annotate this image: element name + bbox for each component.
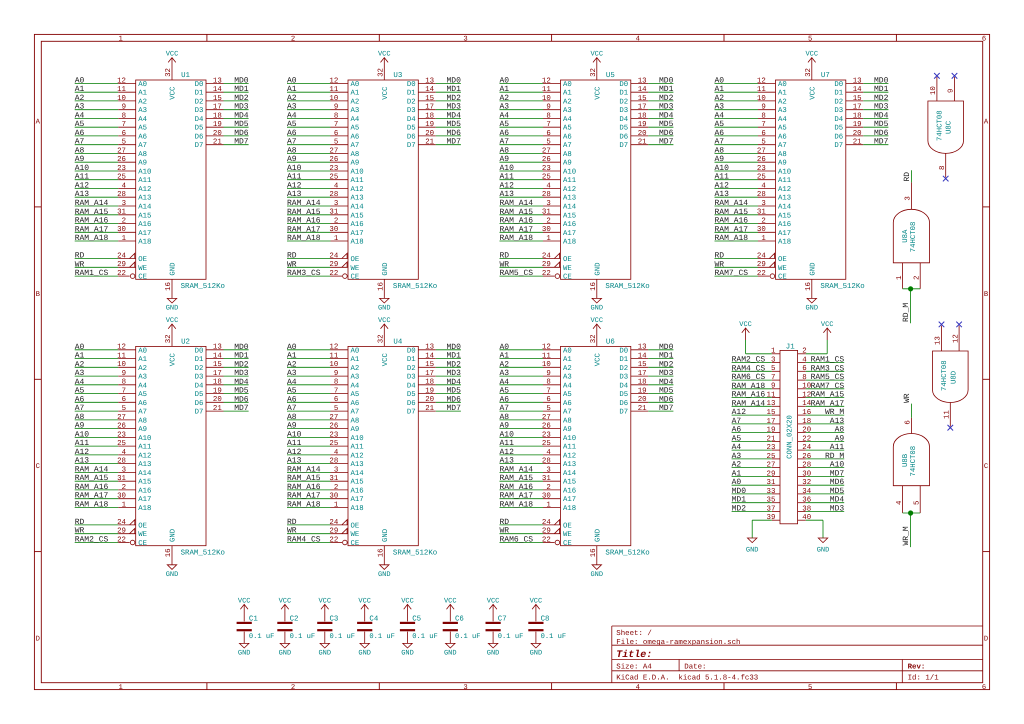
svg-text:8: 8 <box>802 374 806 382</box>
svg-text:D: D <box>984 636 988 644</box>
svg-text:A9: A9 <box>778 160 787 168</box>
svg-text:A0: A0 <box>138 347 147 355</box>
svg-text:A2: A2 <box>351 98 360 106</box>
svg-text:A5: A5 <box>351 391 360 399</box>
svg-text:A3: A3 <box>75 369 85 378</box>
svg-text:15: 15 <box>853 95 862 103</box>
svg-text:A8: A8 <box>563 151 572 159</box>
svg-text:4: 4 <box>334 449 339 457</box>
svg-text:29: 29 <box>757 261 766 269</box>
svg-text:RAM_A18: RAM_A18 <box>75 234 109 243</box>
svg-text:22: 22 <box>542 536 551 544</box>
svg-text:GND: GND <box>170 528 178 542</box>
svg-text:6: 6 <box>122 396 126 404</box>
svg-text:7: 7 <box>122 388 126 396</box>
svg-text:OE: OE <box>351 256 360 264</box>
svg-text:U2: U2 <box>181 338 190 346</box>
svg-text:D0: D0 <box>619 347 628 355</box>
svg-text:6: 6 <box>546 130 550 138</box>
svg-text:0.1 uF: 0.1 uF <box>249 633 275 641</box>
svg-text:11: 11 <box>542 353 551 361</box>
svg-text:12: 12 <box>542 77 551 85</box>
svg-text:15: 15 <box>425 95 434 103</box>
svg-text:5: 5 <box>913 501 921 505</box>
svg-text:GND: GND <box>444 650 457 658</box>
svg-text:1: 1 <box>119 684 123 692</box>
svg-text:25: 25 <box>329 174 338 182</box>
svg-text:40: 40 <box>802 514 811 522</box>
svg-text:D4: D4 <box>834 116 843 124</box>
svg-text:D5: D5 <box>195 125 204 133</box>
svg-text:MD7: MD7 <box>234 138 249 147</box>
svg-text:A10: A10 <box>563 169 576 177</box>
svg-text:27: 27 <box>329 147 338 155</box>
svg-text:28: 28 <box>329 458 338 466</box>
svg-text:A6: A6 <box>500 395 510 404</box>
svg-text:WE: WE <box>351 265 360 273</box>
svg-text:4: 4 <box>546 182 551 190</box>
svg-text:RAM7_CS: RAM7_CS <box>811 382 845 391</box>
svg-text:GND: GND <box>279 650 292 658</box>
svg-text:RAM_A14: RAM_A14 <box>500 199 534 208</box>
svg-text:A0: A0 <box>138 81 147 89</box>
svg-text:A5: A5 <box>287 120 297 129</box>
svg-text:A5: A5 <box>715 120 725 129</box>
svg-text:RAM3_CS: RAM3_CS <box>287 269 321 278</box>
svg-text:1: 1 <box>334 235 339 243</box>
svg-text:28: 28 <box>329 191 338 199</box>
svg-text:A8: A8 <box>138 151 147 159</box>
svg-text:A15: A15 <box>351 212 364 220</box>
svg-text:22: 22 <box>757 270 766 278</box>
svg-text:MD4: MD4 <box>446 378 461 387</box>
svg-text:MD0: MD0 <box>659 343 674 352</box>
svg-text:20: 20 <box>213 130 222 138</box>
svg-text:A6: A6 <box>138 400 147 408</box>
svg-text:19: 19 <box>853 121 862 129</box>
svg-text:A0: A0 <box>563 347 572 355</box>
svg-text:D0: D0 <box>619 81 628 89</box>
svg-text:A5: A5 <box>563 125 572 133</box>
svg-text:6: 6 <box>334 396 338 404</box>
svg-text:A8: A8 <box>778 151 787 159</box>
svg-text:25: 25 <box>542 440 551 448</box>
svg-text:MD7: MD7 <box>874 138 889 147</box>
svg-text:A4: A4 <box>500 111 510 120</box>
svg-text:16: 16 <box>165 282 173 291</box>
svg-text:VCC: VCC <box>487 597 500 605</box>
svg-text:D6: D6 <box>619 400 628 408</box>
svg-text:CE: CE <box>778 274 787 282</box>
svg-text:GND: GND <box>817 547 830 555</box>
svg-text:GND: GND <box>805 305 818 313</box>
svg-text:31: 31 <box>767 479 776 487</box>
svg-text:C: C <box>984 463 989 471</box>
svg-text:D1: D1 <box>619 356 628 364</box>
svg-text:23: 23 <box>542 165 551 173</box>
svg-text:27: 27 <box>329 414 338 422</box>
svg-text:A18: A18 <box>563 505 576 513</box>
svg-text:A10: A10 <box>830 461 845 470</box>
svg-text:U8B: U8B <box>902 453 910 467</box>
svg-text:MD6: MD6 <box>446 129 461 138</box>
svg-text:13: 13 <box>638 77 647 85</box>
svg-text:30: 30 <box>329 226 338 234</box>
svg-text:MD1: MD1 <box>446 85 461 94</box>
svg-text:A13: A13 <box>500 190 515 199</box>
svg-text:D2: D2 <box>619 98 628 106</box>
svg-text:A13: A13 <box>138 461 151 469</box>
svg-text:A16: A16 <box>351 221 364 229</box>
svg-text:D3: D3 <box>195 107 204 115</box>
svg-text:MD6: MD6 <box>234 395 249 404</box>
svg-text:23: 23 <box>542 431 551 439</box>
svg-text:RD: RD <box>287 518 297 527</box>
svg-text:A6: A6 <box>563 400 572 408</box>
svg-text:27: 27 <box>542 147 551 155</box>
svg-text:B: B <box>984 291 989 299</box>
svg-text:D6: D6 <box>834 133 843 141</box>
svg-text:VCC: VCC <box>170 352 178 366</box>
svg-text:RAM_A15: RAM_A15 <box>715 208 749 217</box>
svg-text:21: 21 <box>213 139 222 147</box>
svg-text:A4: A4 <box>351 382 360 390</box>
svg-text:17: 17 <box>425 370 434 378</box>
svg-text:RAM_A15: RAM_A15 <box>75 208 109 217</box>
svg-text:MD3: MD3 <box>446 369 461 378</box>
svg-text:A4: A4 <box>351 116 360 124</box>
svg-text:U8A: U8A <box>902 229 910 243</box>
svg-text:RAM5_CS: RAM5_CS <box>811 373 845 382</box>
svg-text:13: 13 <box>425 77 434 85</box>
svg-text:11: 11 <box>117 86 126 94</box>
svg-text:A2: A2 <box>75 94 85 103</box>
svg-text:2: 2 <box>122 217 126 225</box>
svg-text:VCC: VCC <box>594 352 602 366</box>
svg-text:MD7: MD7 <box>659 404 674 413</box>
svg-text:RAM2_CS: RAM2_CS <box>732 356 766 365</box>
svg-text:28: 28 <box>542 458 551 466</box>
svg-text:A3: A3 <box>351 107 360 115</box>
svg-text:A2: A2 <box>75 360 85 369</box>
svg-text:74HCT08: 74HCT08 <box>910 446 918 477</box>
svg-text:5: 5 <box>122 405 126 413</box>
svg-text:MD6: MD6 <box>234 129 249 138</box>
svg-text:A1: A1 <box>138 356 147 364</box>
svg-text:19: 19 <box>638 388 647 396</box>
svg-text:A7: A7 <box>563 142 572 150</box>
svg-text:10: 10 <box>117 95 126 103</box>
svg-text:VCC: VCC <box>382 352 390 366</box>
svg-text:6: 6 <box>546 396 550 404</box>
svg-text:MD7: MD7 <box>659 138 674 147</box>
svg-text:A10: A10 <box>500 164 515 173</box>
svg-text:RAM_A18: RAM_A18 <box>75 500 109 509</box>
svg-text:A9: A9 <box>138 160 147 168</box>
svg-text:MD4: MD4 <box>830 496 845 505</box>
svg-text:MD1: MD1 <box>446 352 461 361</box>
svg-text:25: 25 <box>117 440 126 448</box>
svg-text:14: 14 <box>425 353 434 361</box>
svg-text:11: 11 <box>767 392 776 400</box>
svg-text:RAM_A16: RAM_A16 <box>287 217 321 226</box>
svg-text:D2: D2 <box>619 365 628 373</box>
svg-text:A17: A17 <box>778 230 791 238</box>
svg-text:28: 28 <box>757 191 766 199</box>
svg-text:MD3: MD3 <box>659 103 674 112</box>
svg-text:27: 27 <box>117 147 126 155</box>
svg-text:A6: A6 <box>351 133 360 141</box>
svg-text:A5: A5 <box>500 120 510 129</box>
svg-text:A7: A7 <box>287 138 297 147</box>
svg-text:D2: D2 <box>195 365 204 373</box>
svg-text:25: 25 <box>117 174 126 182</box>
svg-text:6: 6 <box>334 130 338 138</box>
svg-text:6: 6 <box>761 130 765 138</box>
svg-text:A11: A11 <box>500 439 515 448</box>
svg-text:A14: A14 <box>138 470 152 478</box>
svg-text:GND: GND <box>166 571 179 579</box>
svg-text:3: 3 <box>904 196 912 200</box>
svg-text:20: 20 <box>638 130 647 138</box>
svg-text:A10: A10 <box>287 164 302 173</box>
svg-text:A3: A3 <box>351 374 360 382</box>
svg-text:Size: A4: Size: A4 <box>616 663 652 672</box>
svg-text:D0: D0 <box>407 81 416 89</box>
svg-text:SRAM_512Ko: SRAM_512Ko <box>181 549 225 557</box>
svg-text:MD2: MD2 <box>874 94 889 103</box>
svg-text:RAM_A15: RAM_A15 <box>811 391 845 400</box>
svg-text:RAM_A18: RAM_A18 <box>287 234 321 243</box>
svg-text:MD5: MD5 <box>234 120 249 129</box>
svg-text:A0: A0 <box>287 343 297 352</box>
svg-text:SRAM_512Ko: SRAM_512Ko <box>393 283 437 291</box>
svg-text:A7: A7 <box>715 138 725 147</box>
svg-text:A16: A16 <box>351 487 364 495</box>
svg-text:21: 21 <box>853 139 862 147</box>
svg-text:2: 2 <box>291 684 295 692</box>
svg-text:29: 29 <box>117 261 126 269</box>
svg-text:A13: A13 <box>563 461 576 469</box>
svg-text:18: 18 <box>802 418 811 426</box>
svg-text:A11: A11 <box>138 177 152 185</box>
svg-text:VCC: VCC <box>166 51 179 59</box>
svg-text:RAM_A17: RAM_A17 <box>715 225 749 234</box>
svg-text:MD5: MD5 <box>659 387 674 396</box>
svg-text:A1: A1 <box>75 352 85 361</box>
svg-text:1: 1 <box>546 501 551 509</box>
svg-text:D6: D6 <box>195 133 204 141</box>
svg-text:WR_M: WR_M <box>825 408 844 417</box>
svg-text:WR_M: WR_M <box>902 526 911 545</box>
svg-text:CE: CE <box>563 540 572 548</box>
svg-text:MD7: MD7 <box>234 404 249 413</box>
svg-text:VCC: VCC <box>318 597 331 605</box>
svg-text:11: 11 <box>757 86 766 94</box>
svg-text:A0: A0 <box>715 76 725 85</box>
svg-text:MD0: MD0 <box>874 76 889 85</box>
svg-text:A8: A8 <box>715 147 725 156</box>
svg-text:22: 22 <box>542 270 551 278</box>
svg-text:38: 38 <box>802 505 811 513</box>
svg-text:OE: OE <box>563 522 572 530</box>
svg-text:A6: A6 <box>563 133 572 141</box>
svg-text:9: 9 <box>948 89 956 93</box>
svg-text:A10: A10 <box>351 169 364 177</box>
svg-text:U3: U3 <box>393 72 402 80</box>
svg-text:A13: A13 <box>778 195 791 203</box>
svg-text:11: 11 <box>329 86 338 94</box>
svg-text:A2: A2 <box>287 94 297 103</box>
svg-text:MD2: MD2 <box>234 94 249 103</box>
svg-text:8: 8 <box>939 166 947 170</box>
svg-text:31: 31 <box>329 475 338 483</box>
svg-text:17: 17 <box>213 370 222 378</box>
svg-text:D0: D0 <box>195 347 204 355</box>
svg-text:10: 10 <box>329 95 338 103</box>
svg-text:WR: WR <box>500 527 510 536</box>
svg-text:GND: GND <box>378 571 391 579</box>
svg-text:A16: A16 <box>138 487 151 495</box>
svg-text:4: 4 <box>122 449 127 457</box>
svg-text:D5: D5 <box>834 125 843 133</box>
svg-text:U1: U1 <box>181 72 190 80</box>
svg-text:VCC: VCC <box>401 597 414 605</box>
svg-text:WR: WR <box>75 527 85 536</box>
svg-text:A7: A7 <box>287 404 297 413</box>
svg-text:4: 4 <box>636 684 640 692</box>
svg-text:VCC: VCC <box>590 51 603 59</box>
svg-text:A3: A3 <box>75 103 85 112</box>
svg-text:2: 2 <box>334 484 338 492</box>
svg-text:74HCT08: 74HCT08 <box>941 360 949 391</box>
svg-text:VCC: VCC <box>238 597 251 605</box>
svg-text:5: 5 <box>808 684 812 692</box>
svg-text:3: 3 <box>771 357 775 365</box>
svg-text:12: 12 <box>117 344 126 352</box>
svg-text:CE: CE <box>563 274 572 282</box>
svg-text:U6: U6 <box>606 338 615 346</box>
svg-text:31: 31 <box>117 475 126 483</box>
svg-text:28: 28 <box>542 191 551 199</box>
svg-text:D4: D4 <box>195 382 204 390</box>
svg-text:A2: A2 <box>778 98 787 106</box>
svg-text:OE: OE <box>563 256 572 264</box>
svg-text:30: 30 <box>802 470 811 478</box>
svg-text:5: 5 <box>761 139 765 147</box>
svg-text:A7: A7 <box>732 417 742 426</box>
svg-text:D7: D7 <box>407 409 416 417</box>
svg-text:RAM_A15: RAM_A15 <box>287 208 321 217</box>
svg-text:A12: A12 <box>715 182 730 191</box>
svg-text:28: 28 <box>117 191 126 199</box>
svg-text:A8: A8 <box>287 413 297 422</box>
svg-text:D4: D4 <box>619 116 628 124</box>
svg-text:3: 3 <box>334 466 338 474</box>
svg-text:19: 19 <box>213 121 222 129</box>
svg-text:2: 2 <box>761 217 765 225</box>
svg-text:GND: GND <box>401 650 414 658</box>
svg-text:A17: A17 <box>351 230 364 238</box>
svg-text:A6: A6 <box>778 133 787 141</box>
svg-text:RAM_A18: RAM_A18 <box>500 234 534 243</box>
svg-text:RAM_A15: RAM_A15 <box>500 208 534 217</box>
svg-text:A5: A5 <box>138 125 147 133</box>
svg-text:A1: A1 <box>563 356 572 364</box>
svg-text:A9: A9 <box>563 426 572 434</box>
svg-text:MD5: MD5 <box>659 120 674 129</box>
svg-text:A11: A11 <box>287 173 302 182</box>
svg-text:19: 19 <box>213 388 222 396</box>
svg-text:14: 14 <box>638 86 647 94</box>
svg-text:U8C: U8C <box>946 120 954 134</box>
svg-text:A4: A4 <box>138 116 147 124</box>
svg-text:A14: A14 <box>351 470 365 478</box>
svg-text:A3: A3 <box>778 107 787 115</box>
svg-text:29: 29 <box>117 528 126 536</box>
svg-text:SRAM_512Ko: SRAM_512Ko <box>393 549 437 557</box>
svg-text:C2: C2 <box>290 615 299 623</box>
svg-text:GND: GND <box>170 262 178 276</box>
svg-text:RAM_A14: RAM_A14 <box>75 199 109 208</box>
svg-text:A1: A1 <box>732 469 742 478</box>
svg-text:A16: A16 <box>563 487 576 495</box>
svg-text:A7: A7 <box>563 409 572 417</box>
svg-text:WE: WE <box>563 531 572 539</box>
svg-text:17: 17 <box>853 104 862 112</box>
svg-text:13: 13 <box>213 344 222 352</box>
svg-text:7: 7 <box>546 121 550 129</box>
svg-text:D2: D2 <box>407 98 416 106</box>
svg-text:MD6: MD6 <box>659 395 674 404</box>
svg-text:A11: A11 <box>563 444 577 452</box>
svg-text:A17: A17 <box>563 230 576 238</box>
svg-text:A2: A2 <box>500 94 510 103</box>
svg-text:A0: A0 <box>778 81 787 89</box>
svg-text:A12: A12 <box>351 452 364 460</box>
svg-text:15: 15 <box>213 361 222 369</box>
svg-text:A3: A3 <box>563 107 572 115</box>
svg-text:RAM_A17: RAM_A17 <box>500 492 534 501</box>
svg-text:A1: A1 <box>778 90 787 98</box>
svg-text:SRAM_512Ko: SRAM_512Ko <box>181 283 225 291</box>
svg-text:RAM_A17: RAM_A17 <box>811 399 845 408</box>
svg-text:SRAM_512Ko: SRAM_512Ko <box>820 283 864 291</box>
svg-text:RAM6_CS: RAM6_CS <box>732 373 766 382</box>
svg-text:28: 28 <box>802 462 811 470</box>
svg-text:3: 3 <box>122 200 126 208</box>
svg-text:RAM_A16: RAM_A16 <box>500 217 534 226</box>
svg-text:A10: A10 <box>75 430 90 439</box>
svg-text:25: 25 <box>757 174 766 182</box>
svg-text:A6: A6 <box>732 426 742 435</box>
svg-text:D3: D3 <box>407 374 416 382</box>
svg-text:A12: A12 <box>563 186 576 194</box>
svg-text:A14: A14 <box>563 470 577 478</box>
svg-text:30: 30 <box>542 226 551 234</box>
svg-text:D6: D6 <box>407 133 416 141</box>
svg-text:VCC: VCC <box>378 317 391 325</box>
svg-text:RAM_A14: RAM_A14 <box>287 199 321 208</box>
svg-text:A5: A5 <box>500 387 510 396</box>
svg-text:D6: D6 <box>407 400 416 408</box>
svg-text:A6: A6 <box>500 129 510 138</box>
svg-text:RAM_A15: RAM_A15 <box>287 474 321 483</box>
svg-text:22: 22 <box>329 270 338 278</box>
svg-text:RAM1_CS: RAM1_CS <box>75 269 109 278</box>
svg-text:J1: J1 <box>786 343 795 351</box>
svg-text:14: 14 <box>853 86 862 94</box>
